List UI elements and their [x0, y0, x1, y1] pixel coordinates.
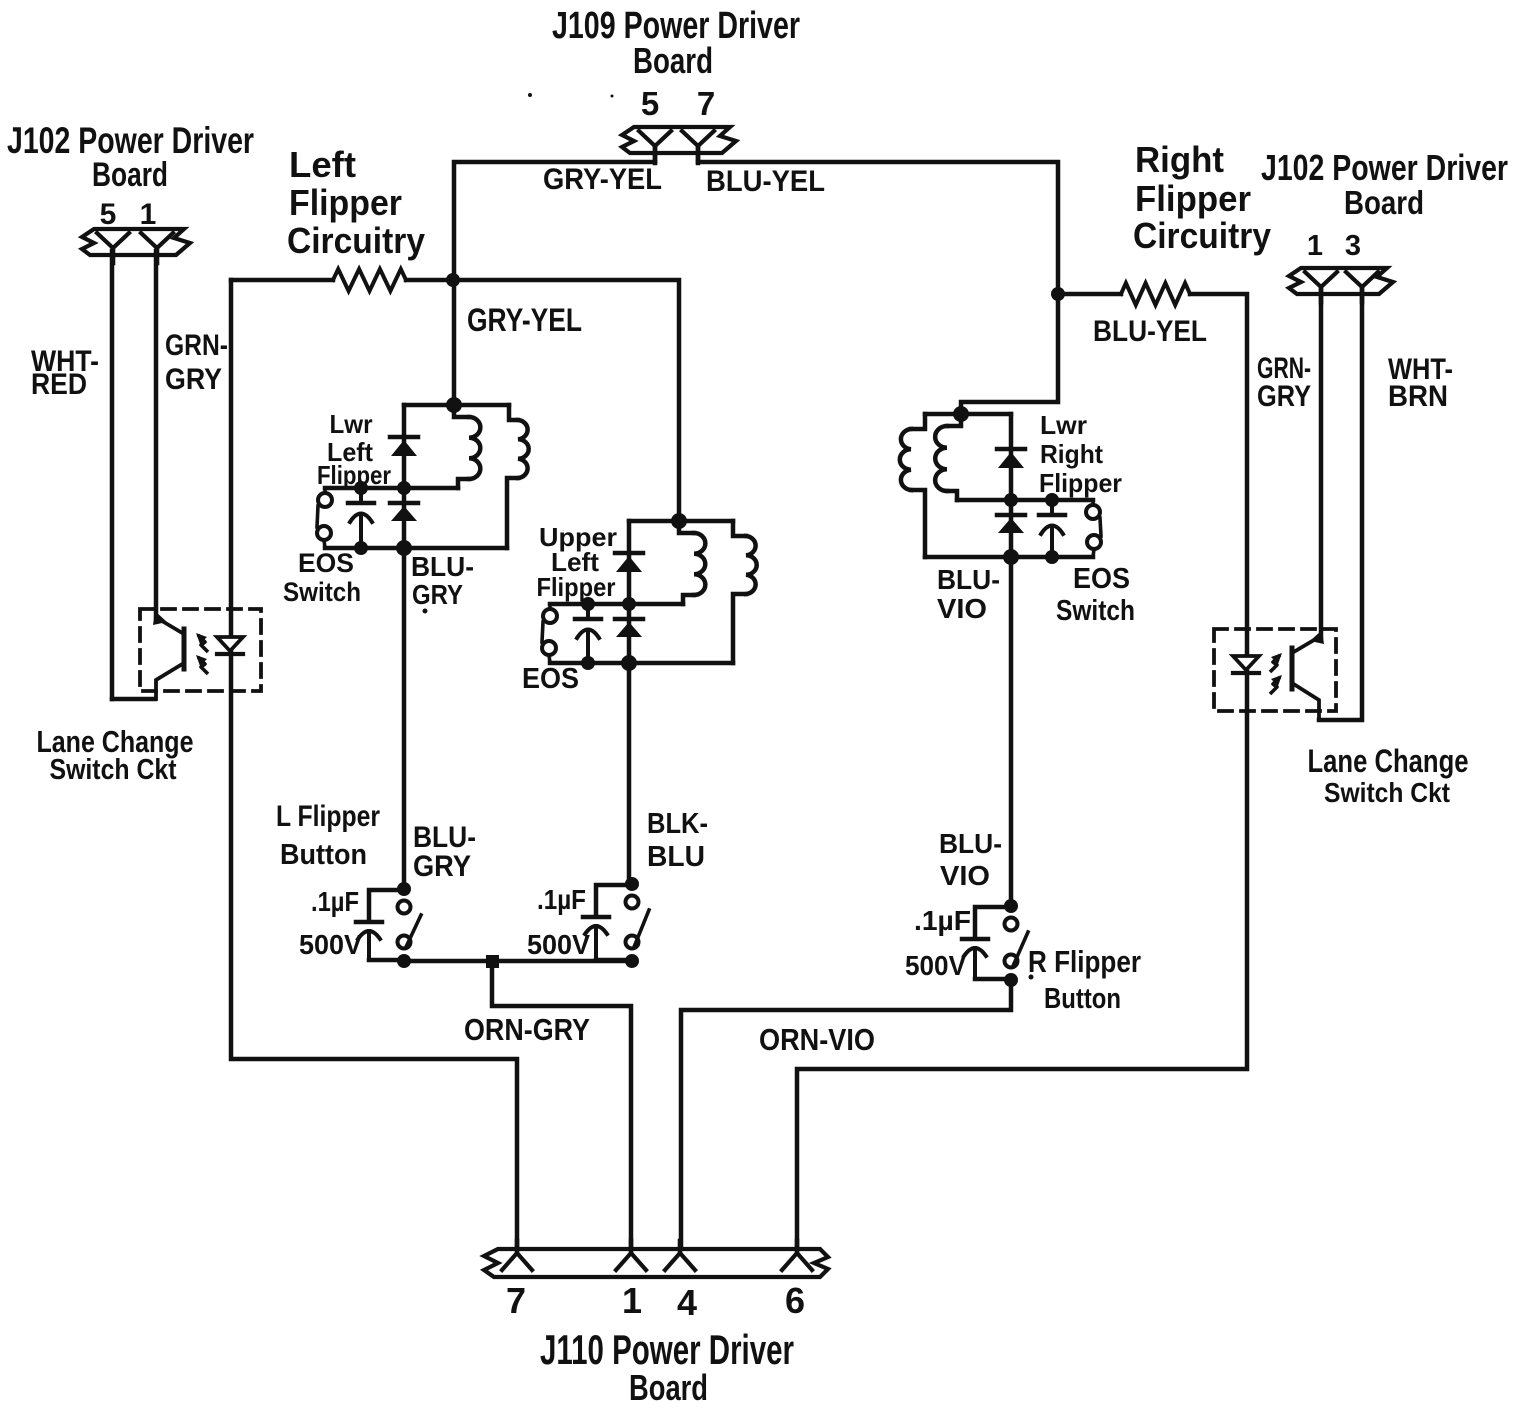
svg-text:Board: Board — [633, 40, 713, 81]
svg-text:BLU-YEL: BLU-YEL — [706, 165, 825, 198]
svg-text:J102 Power Driver: J102 Power Driver — [1261, 147, 1508, 188]
svg-text:GRY-YEL: GRY-YEL — [543, 163, 662, 196]
svg-text:Button: Button — [280, 839, 367, 871]
svg-text:Board: Board — [92, 156, 168, 194]
svg-text:J102 Power Driver: J102 Power Driver — [7, 120, 254, 161]
svg-text:Flipper: Flipper — [1135, 178, 1251, 219]
svg-text:Board: Board — [1344, 184, 1424, 221]
svg-text:R Flipper: R Flipper — [1028, 944, 1141, 979]
svg-text:Switch: Switch — [283, 577, 361, 607]
svg-text:.1µF: .1µF — [537, 884, 586, 915]
svg-text:Flipper: Flipper — [1039, 468, 1122, 498]
svg-text:1: 1 — [140, 198, 157, 231]
svg-text:EOS: EOS — [1073, 563, 1130, 595]
svg-text:Lane Change: Lane Change — [1308, 743, 1469, 779]
svg-text:Circuitry: Circuitry — [287, 220, 425, 261]
svg-text:VIO: VIO — [940, 860, 990, 891]
svg-text:7: 7 — [697, 85, 715, 122]
svg-text:GRY: GRY — [412, 579, 463, 610]
svg-text:GRY: GRY — [165, 363, 222, 396]
svg-text:Switch: Switch — [1056, 595, 1135, 627]
svg-text:.1µF: .1µF — [311, 886, 359, 917]
svg-text:1: 1 — [1307, 230, 1323, 262]
svg-text:ORN-GRY: ORN-GRY — [464, 1012, 590, 1047]
svg-text:GRY: GRY — [413, 850, 471, 883]
svg-text:5: 5 — [100, 198, 117, 231]
svg-text:EOS: EOS — [298, 548, 354, 578]
svg-text:BLU-: BLU- — [939, 828, 1002, 859]
svg-text:Right: Right — [1135, 139, 1224, 180]
svg-text:1: 1 — [622, 1280, 642, 1321]
svg-text:BLU-: BLU- — [411, 551, 474, 582]
svg-text:Flipper: Flipper — [317, 460, 391, 490]
svg-text:Circuitry: Circuitry — [1133, 215, 1271, 256]
svg-text:Lwr: Lwr — [1040, 410, 1087, 440]
svg-text:BLU-: BLU- — [937, 564, 1000, 595]
svg-text:Flipper: Flipper — [537, 572, 616, 602]
svg-text:ORN-VIO: ORN-VIO — [759, 1022, 875, 1057]
svg-text:VIO: VIO — [937, 593, 987, 624]
svg-text:GRY: GRY — [1257, 380, 1311, 413]
svg-text:7: 7 — [506, 1280, 526, 1321]
svg-text:J110 Power Driver: J110 Power Driver — [540, 1326, 794, 1373]
svg-text:BLK-: BLK- — [647, 808, 708, 840]
svg-text:4: 4 — [677, 1282, 697, 1323]
svg-text:Right: Right — [1040, 439, 1103, 469]
svg-text:BLU-YEL: BLU-YEL — [1093, 315, 1207, 348]
svg-text:Left: Left — [289, 144, 356, 185]
svg-text:500V: 500V — [905, 950, 966, 981]
svg-text:500V: 500V — [527, 929, 590, 960]
svg-text:Board: Board — [629, 1367, 708, 1408]
svg-text:500V: 500V — [299, 929, 362, 960]
svg-text:5: 5 — [641, 85, 659, 122]
svg-text:6: 6 — [785, 1280, 805, 1321]
svg-text:GRY-YEL: GRY-YEL — [467, 302, 582, 338]
svg-text:RED: RED — [31, 368, 87, 401]
svg-text:BRN: BRN — [1388, 380, 1448, 413]
svg-text:Switch Ckt: Switch Ckt — [1324, 777, 1450, 808]
svg-text:Flipper: Flipper — [289, 182, 402, 223]
svg-text:L Flipper: L Flipper — [276, 800, 380, 833]
svg-text:EOS: EOS — [522, 663, 579, 695]
svg-text:Lwr: Lwr — [330, 409, 373, 439]
svg-text:GRN-: GRN- — [165, 329, 228, 362]
svg-text:Switch Ckt: Switch Ckt — [50, 754, 177, 786]
svg-text:.1µF: .1µF — [914, 905, 971, 936]
svg-text:BLU: BLU — [647, 841, 705, 873]
svg-text:Button: Button — [1044, 983, 1121, 1015]
svg-text:3: 3 — [1345, 230, 1361, 262]
